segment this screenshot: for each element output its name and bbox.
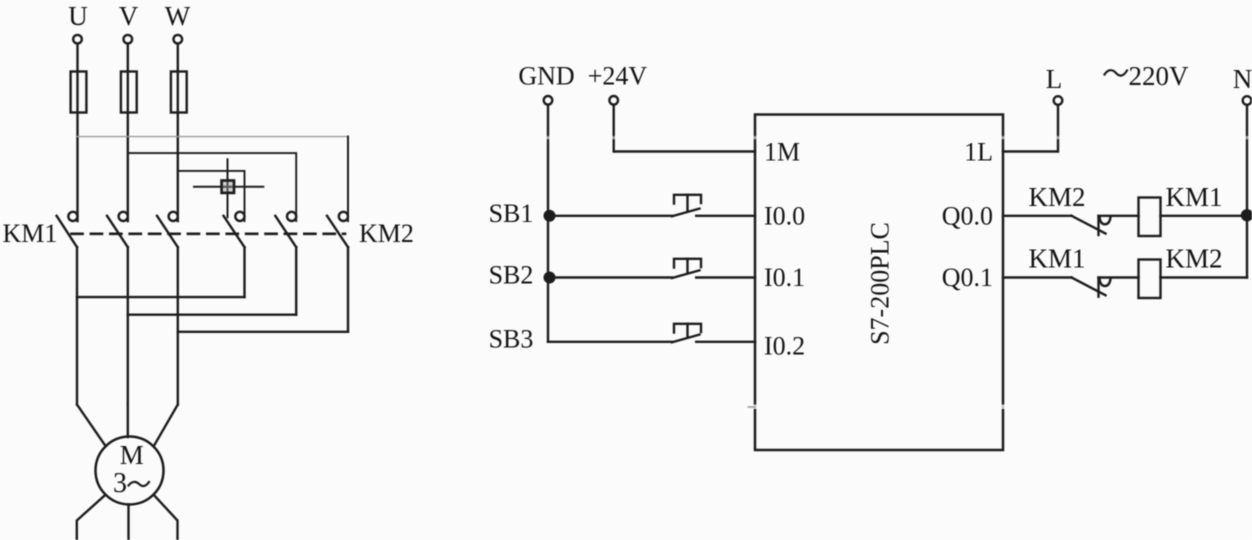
- svg-text:KM1: KM1: [1028, 244, 1085, 274]
- wire coil KM1 to N: [1161, 215, 1248, 217]
- svg-text:+24V: +24V: [588, 62, 648, 91]
- contact KM2 pole5 lever: [275, 216, 296, 247]
- wire motor feed middle: [127, 405, 129, 438]
- wire U branch to KM2 pole6 (thin): [77, 136, 349, 138]
- svg-text:W: W: [165, 1, 191, 31]
- contact KM1 pole1 terminal: [68, 212, 77, 221]
- wire SB1 left: [548, 215, 672, 217]
- wire contact to coil KM2: [1099, 276, 1139, 278]
- junction SB1: [545, 211, 555, 221]
- wire SB1 to I0.0: [696, 215, 755, 217]
- pushbutton SB1: [672, 195, 701, 217]
- terminal GND: [544, 96, 553, 105]
- wire Q0.0 to contact: [1003, 215, 1072, 217]
- wire crossover pole4 to phase U: [77, 296, 245, 298]
- CAD cursor crosshair vertical: [227, 159, 229, 217]
- wire KM2 pole5 output: [295, 247, 297, 315]
- contact KM2 pole5 terminal: [287, 212, 296, 221]
- wire V terminal to fuse: [127, 44, 129, 71]
- svg-text:I0.2: I0.2: [764, 332, 805, 361]
- svg-text:KM1: KM1: [3, 219, 58, 248]
- wire SB2 to I0.1: [696, 276, 755, 278]
- wire V fuse to KM1 pole2: [127, 72, 129, 222]
- wire motor out left: [77, 495, 106, 540]
- contact KM1 NC (interlock): [1072, 278, 1111, 297]
- svg-text:S7-200PLC: S7-200PLC: [866, 222, 895, 345]
- coil KM2: [1139, 260, 1161, 299]
- svg-text:3: 3: [113, 468, 127, 499]
- svg-text:KM1: KM1: [1165, 182, 1222, 212]
- wire motor out middle: [127, 504, 129, 540]
- wire KM1 pole2 output: [127, 247, 129, 404]
- wire SB3 left: [548, 341, 672, 343]
- wire U fuse to KM1 pole1: [76, 72, 78, 222]
- wire W terminal to fuse: [177, 44, 179, 71]
- contact KM2 pole4 lever: [224, 216, 245, 247]
- PLC stub unused: [753, 405, 1006, 410]
- svg-text:I0.0: I0.0: [764, 202, 805, 231]
- svg-text:GND: GND: [518, 62, 574, 91]
- svg-text:SB1: SB1: [489, 199, 534, 228]
- svg-text:Q0.1: Q0.1: [942, 263, 993, 292]
- contact KM2 NC (interlock): [1072, 216, 1111, 235]
- contact KM1 pole1 lever: [57, 216, 77, 247]
- svg-text:220V: 220V: [1129, 61, 1190, 91]
- junction SB2: [545, 273, 555, 283]
- svg-text:I0.1: I0.1: [764, 263, 805, 292]
- fuse FU1: [71, 72, 87, 113]
- wire crossover pole5 to phase V: [128, 314, 296, 316]
- wire W branch to KM2 pole4: [178, 171, 245, 221]
- wire SB2 left: [548, 276, 672, 278]
- wire U terminal to fuse: [76, 44, 78, 71]
- fuse FU3: [171, 72, 187, 113]
- wire KM1 pole3 output: [177, 247, 179, 404]
- wire motor out right: [154, 495, 178, 540]
- wire GND bus: [547, 106, 549, 342]
- svg-text:V: V: [119, 1, 139, 31]
- svg-text:L: L: [1046, 64, 1063, 94]
- contact KM1 pole2 terminal: [119, 212, 128, 221]
- motor M circle: [96, 437, 164, 505]
- wire KM2 pole4 output: [243, 247, 245, 297]
- svg-text:KM2: KM2: [1165, 244, 1222, 274]
- terminal V: [124, 35, 133, 44]
- contact KM1 pole2 lever: [107, 216, 128, 247]
- wire SB3 to I0.2: [696, 341, 755, 343]
- wire +24V to 1M: [614, 106, 755, 152]
- terminal N: [1243, 96, 1252, 105]
- svg-text:N: N: [1233, 64, 1252, 94]
- terminal L: [1054, 96, 1063, 105]
- CAD cursor pickbox: [222, 181, 234, 193]
- wire V branch to KM2 pole5: [128, 153, 296, 221]
- terminal W: [174, 35, 183, 44]
- pushbutton SB2: [672, 259, 701, 278]
- svg-text:KM2: KM2: [359, 219, 414, 248]
- contact KM1 pole3 lever: [157, 216, 178, 247]
- wire coil KM2 to N: [1161, 276, 1248, 278]
- wire L to 1L: [1003, 106, 1058, 152]
- svg-text:1M: 1M: [764, 138, 800, 167]
- coil KM1: [1139, 198, 1161, 237]
- contact KM1 pole3 terminal: [169, 212, 178, 221]
- svg-text:SB3: SB3: [489, 325, 534, 354]
- svg-text:KM2: KM2: [1028, 182, 1085, 212]
- svg-text:M: M: [120, 440, 144, 470]
- junction N / Q0.0: [1242, 210, 1252, 220]
- wire N bus: [1246, 106, 1248, 278]
- wire Q0.1 to contact: [1003, 276, 1072, 278]
- contact KM2 pole4 terminal: [235, 212, 244, 221]
- contact KM2 pole6 terminal: [339, 212, 348, 221]
- wire KM1 pole1 output: [76, 247, 78, 404]
- svg-text:1L: 1L: [964, 138, 993, 167]
- wire W fuse to KM1 pole3: [177, 72, 179, 222]
- PLC S7-200 box: [755, 115, 1003, 451]
- terminal U: [73, 35, 82, 44]
- svg-text:SB2: SB2: [489, 261, 534, 290]
- svg-text:U: U: [68, 1, 88, 31]
- wire contact to coil KM1: [1099, 215, 1139, 217]
- contact KM2 pole6 lever: [327, 216, 348, 247]
- svg-text:Q0.0: Q0.0: [942, 202, 993, 231]
- CAD cursor crosshair horizontal: [194, 186, 263, 188]
- terminal +24V: [609, 96, 618, 105]
- wire motor feed right: [154, 405, 178, 447]
- wire motor feed left: [77, 405, 106, 447]
- fuse FU2: [121, 72, 137, 113]
- pushbutton SB3: [672, 324, 701, 343]
- wire crossover pole6 to phase W: [178, 331, 348, 333]
- wire KM2 pole6 output: [347, 247, 349, 332]
- mechanical linkage dashed line: [72, 233, 346, 236]
- scan fade band artifact: [400, 136, 1252, 139]
